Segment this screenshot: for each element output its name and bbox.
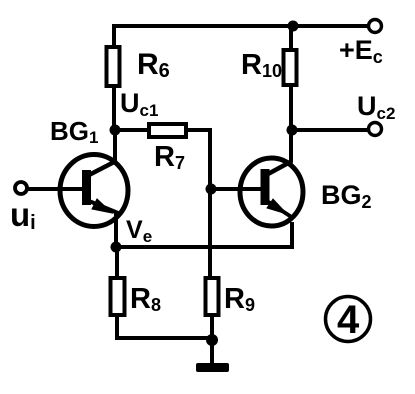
Uc2 terminal xyxy=(369,123,382,136)
node Uc2 xyxy=(287,125,298,136)
wire R7 branch down to R9 xyxy=(208,189,212,278)
resistor R7 xyxy=(149,124,186,137)
wire to ground xyxy=(210,340,214,364)
wire R8 bottom lead xyxy=(117,315,212,338)
transistor Q BG2 xyxy=(240,158,303,226)
wire R6 bottom lead xyxy=(112,86,116,130)
wire Uc1 to R7 xyxy=(115,128,149,132)
resistor R6 xyxy=(107,47,120,86)
node ground junction xyxy=(206,334,218,346)
node Uc1 xyxy=(110,125,121,136)
svg-text:4: 4 xyxy=(337,298,360,342)
wire Ve to R8 xyxy=(115,247,119,278)
wire BG2 collector up xyxy=(289,130,293,162)
resistor R8 xyxy=(111,278,125,315)
node top-rail junction xyxy=(288,21,299,32)
figure number 4 xyxy=(326,297,371,342)
wire BG1 emitter down to Ve xyxy=(114,211,118,247)
wire BG1 collector up to Uc1 xyxy=(113,130,117,161)
wire R9 bottom lead xyxy=(210,315,214,340)
transistor Q BG1 xyxy=(60,155,128,227)
wire R10 top lead xyxy=(289,26,293,50)
wire R10 bottom lead xyxy=(289,85,293,130)
+Ec terminal xyxy=(369,20,382,33)
ground xyxy=(196,363,229,372)
wire Uc2 xyxy=(292,128,369,132)
resistor R10 xyxy=(284,50,297,85)
resistor R9 xyxy=(206,278,219,315)
wire R7 to BG2 base xyxy=(186,130,210,189)
wire R6 top lead xyxy=(112,24,116,47)
wire base of BG2 xyxy=(211,187,263,191)
wire Ve rail xyxy=(116,222,292,247)
terminal input Ui xyxy=(15,182,27,194)
node Ve xyxy=(111,242,122,253)
node BG2 base junction xyxy=(206,184,217,195)
wire top rail xyxy=(114,24,369,28)
wire input to BG1 base xyxy=(27,187,86,191)
